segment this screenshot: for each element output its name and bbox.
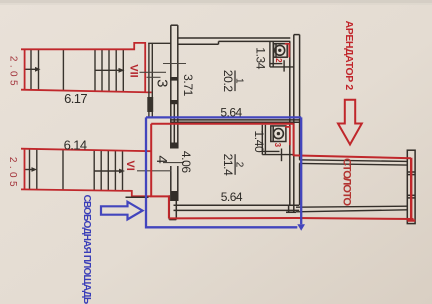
svg-text:20.2: 20.2 — [221, 70, 235, 92]
svg-text:VI: VI — [124, 160, 136, 170]
staircase VII treads — [31, 49, 123, 91]
staircase VII red outline — [21, 43, 152, 93]
corridor 3 left wall solid block — [147, 97, 153, 112]
central load-bearing wall — [171, 25, 178, 191]
toilet 2 walls (room 1 wc) — [270, 41, 294, 71]
leader line room 4 — [137, 170, 172, 172]
red lease boundary annex — [169, 155, 414, 219]
svg-text:3: 3 — [273, 143, 282, 148]
svg-text:VII: VII — [128, 64, 140, 77]
svg-text:АРЕНДАТОР 2: АРЕНДАТОР 2 — [343, 21, 354, 91]
svg-text:1.34: 1.34 — [254, 47, 268, 69]
staircase VI red outline — [21, 149, 151, 197]
staircase VI treads — [30, 149, 123, 191]
svg-text:СВОБОДНАЯ ПЛОЩАДЬ: СВОБОДНАЯ ПЛОЩАДЬ — [81, 195, 92, 304]
svg-text:1.40: 1.40 — [252, 131, 266, 153]
svg-text:3: 3 — [154, 79, 171, 87]
svg-text:3.71: 3.71 — [181, 74, 195, 96]
leader line room 3 — [140, 71, 167, 73]
svg-text:2: 2 — [274, 58, 283, 63]
door opening ticks — [147, 64, 187, 163]
room 1 area label 1/20.2 — [221, 70, 245, 92]
staircase VII direction arrows — [25, 67, 125, 73]
svg-text:4.06: 4.06 — [179, 151, 193, 173]
right outer wall — [286, 35, 300, 213]
blue free-area rectangle — [146, 117, 301, 227]
wall between room 1 and room 2 — [171, 120, 299, 122]
svg-text:21.4: 21.4 — [221, 154, 235, 176]
red bracket room 2 wc — [285, 127, 290, 145]
svg-text:5.64: 5.64 — [221, 190, 243, 204]
annex pier red line — [407, 158, 415, 221]
svg-text:2.05: 2.05 — [7, 56, 18, 89]
central wall solid blocks — [170, 77, 178, 201]
room 2 area label 2/21.4 — [221, 154, 245, 176]
room 1 top wall — [178, 38, 290, 44]
svg-text:4: 4 — [153, 155, 170, 163]
red hollow arrow down (tenant 2) — [338, 100, 362, 145]
blue hollow arrow right (free area) — [101, 202, 143, 220]
svg-text:6.17: 6.17 — [64, 91, 87, 106]
staircase VI direction arrows — [24, 167, 125, 173]
svg-text:2.05: 2.05 — [7, 157, 18, 190]
svg-text:5.64: 5.64 — [220, 106, 242, 120]
room 2 bottom wall — [126, 195, 300, 219]
sink fixture room 2 wc — [271, 126, 286, 142]
red bracket room 1 wc — [285, 44, 290, 58]
blue rectangle corner arrowhead — [297, 224, 305, 230]
annex end pier — [407, 150, 415, 223]
svg-text:6.14: 6.14 — [64, 137, 87, 152]
annex corridor walls — [296, 160, 407, 212]
corridor 3 left wall — [148, 43, 171, 117]
sink fixture room 1 wc — [274, 44, 288, 58]
red lease boundary room 2 — [151, 124, 293, 219]
toilet 3 walls (room 2 wc) — [262, 125, 294, 161]
svg-text:СТОЛОТО: СТОЛОТО — [341, 158, 353, 206]
